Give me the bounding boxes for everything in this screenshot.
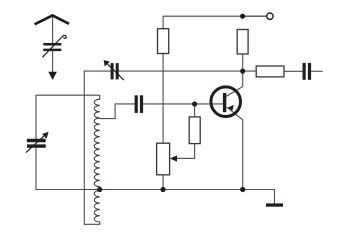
antenna bbox=[35, 15, 69, 24]
wire trimmer C3 right to collector node and R4 bbox=[119, 70, 302, 72]
junction dot coil / ground rail bbox=[97, 187, 102, 192]
wire antenna down lead bbox=[52, 16, 54, 72]
variable capacitor C5 adjustment diagonal with curl bbox=[43, 35, 67, 57]
wire R1 bottom to potentiometer top bbox=[162, 54, 164, 144]
resistor R1 bbox=[158, 29, 169, 54]
junction dot collector node bbox=[240, 69, 245, 74]
capacitor C4 (output coupling) plates bbox=[304, 63, 309, 80]
transistor Q1 base bar bbox=[223, 93, 226, 112]
variable capacitor C5 (antenna trimmer) plates bbox=[43, 44, 61, 50]
wire bottom ground rail bbox=[36, 190, 275, 204]
junction dot pot / ground rail bbox=[161, 187, 166, 192]
resistor R3 (base series) bbox=[189, 117, 200, 144]
output terminal (open circle) bbox=[267, 13, 273, 19]
wire output terminal stub bbox=[243, 15, 267, 17]
wire R3 bottom to pot wiper arrow bbox=[177, 144, 195, 159]
wire top supply rail bbox=[163, 16, 266, 29]
variable capacitor C1 (tank tuning) plates bbox=[27, 141, 46, 147]
transistor Q1 emitter arrowhead (PNP, points to bar) bbox=[228, 105, 234, 111]
wire potentiometer bottom lead bbox=[162, 175, 164, 190]
potentiometer R5 wiper arrowhead bbox=[170, 155, 177, 161]
inductor L1 tickler winding (below ground rail) bbox=[94, 190, 99, 225]
wire R3 top lead bbox=[194, 104, 196, 117]
capacitor C2 (base coupling) plates bbox=[136, 95, 141, 113]
wire emitter lead down to ground rail bbox=[227, 107, 243, 189]
wire collector lead bbox=[226, 71, 242, 96]
transistor Q1 circle bbox=[211, 87, 241, 117]
junction dot top rail / R2 bbox=[240, 14, 245, 19]
wire coil tap step to C2 bbox=[100, 104, 135, 119]
wire base lead bbox=[143, 103, 223, 105]
junction dot emitter / ground rail bbox=[240, 187, 245, 192]
wire tickler return (coil bottom up to trimmer) bbox=[84, 71, 99, 224]
wire horizontal net y=71 (tickler to collector node) bbox=[84, 70, 110, 72]
variable capacitor C3 arrow bbox=[107, 63, 124, 80]
junction dot base node bbox=[192, 101, 197, 106]
wire R2 bottom lead bbox=[242, 54, 244, 71]
inductor L1 tank winding bbox=[94, 99, 99, 189]
variable capacitor C3 (regen trimmer) plates bbox=[112, 63, 117, 79]
antenna arrow (coupling, points down) bbox=[48, 72, 57, 80]
resistor R2 bbox=[237, 30, 248, 55]
wire tank cap C1 bottom lead bbox=[35, 148, 37, 190]
wire C4 right lead bbox=[312, 70, 322, 72]
potentiometer R5 body bbox=[157, 143, 170, 175]
resistor R4 (collector output series) bbox=[256, 66, 284, 77]
ground symbol bbox=[266, 203, 283, 206]
wire tank loop top edge bbox=[36, 95, 100, 138]
variable capacitor C1 arrow bbox=[26, 135, 45, 153]
